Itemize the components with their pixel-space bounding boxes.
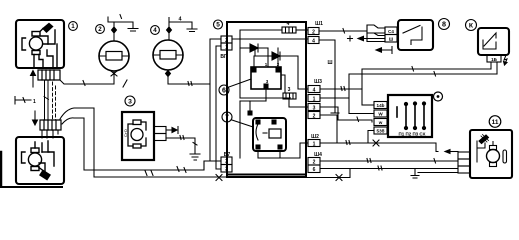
arrow stub left of motor 11: [450, 151, 458, 153]
wire Sh4-6 to wiper motor 11 with ground branch: [320, 168, 458, 170]
diode VD1: [240, 47, 268, 49]
connector X on bottom outer wire: [216, 175, 222, 181]
svg-text:Ш: Ш: [327, 60, 332, 66]
fuse F1 inside unit 5: [282, 27, 296, 33]
wire Sh2-1 to column switch 9 pin 4: [320, 131, 374, 144]
arrow up left of connector: [32, 74, 34, 87]
pump 2 top wire with ground: [113, 22, 115, 41]
svg-text:CтO: CтO: [123, 129, 128, 137]
svg-text:С4: С4: [388, 29, 394, 34]
svg-text:7: 7: [225, 114, 229, 121]
diode VD2: [255, 55, 298, 57]
connector (hatched) above washer pump 3: [40, 120, 61, 130]
node wire Sh3-1 to switch 10: [320, 88, 362, 90]
svg-text:3: 3: [313, 105, 316, 111]
connector wedges + terminals of switch 8: [367, 25, 385, 33]
circled label 11: [489, 116, 501, 128]
svg-text:w: w: [378, 120, 383, 125]
arrow stub right of unit 3: [167, 129, 172, 131]
svg-text:П1 П2 П3 СХ: П1 П2 П3 СХ: [398, 132, 425, 137]
terminal Sh2 (right of unit 5): [308, 140, 320, 147]
svg-text:4: 4: [312, 38, 315, 44]
unit 3 lower pin wire to ground: [166, 138, 195, 154]
wire curved to long bottom run (inner): [62, 118, 204, 170]
circled label 4: [151, 26, 160, 35]
svg-text:Ш4: Ш4: [314, 152, 322, 158]
svg-text:1: 1: [313, 141, 316, 147]
switch 8 contacts inside: [403, 26, 420, 34]
wire Sh3-4 long to wiper motor 11: [320, 115, 438, 152]
fuse F2 inside unit 5: [281, 75, 285, 93]
internal wiring unit 5 middle: [265, 89, 267, 101]
switch 10 contacts inside: [484, 33, 496, 46]
pins from connector 2 into lower unit: [42, 130, 58, 138]
wires from BP down left side: [210, 39, 221, 161]
circled label 8: [439, 19, 450, 30]
svg-text:2: 2: [313, 113, 316, 119]
wire Sh4-2 to wiper motor 11: [320, 160, 458, 162]
pump 4 top wire with ground: [168, 22, 170, 40]
wire curved to long bottom run (outer): [60, 108, 227, 177]
wire Sh1-2 to switch 8: [319, 30, 367, 32]
svg-text:1: 1: [313, 96, 316, 102]
circled label 9: [434, 92, 443, 101]
circled label 10: [466, 20, 477, 31]
node wire Sh3-2 to switch 10: [320, 97, 349, 99]
circled label 5: [214, 20, 223, 29]
column switch 9 terminals: [374, 102, 387, 109]
terminal block B7 (lower left of unit 5): [221, 157, 232, 165]
tick marks bottom-left wires: [145, 171, 153, 176]
svg-text:1: 1: [71, 23, 75, 30]
switch 10 wires down-left: [490, 62, 492, 69]
lightning arrow: [504, 55, 507, 65]
svg-text:В7: В7: [224, 152, 231, 158]
svg-text:4: 4: [313, 87, 316, 93]
edge smudges: [0, 152, 2, 188]
svg-text:5: 5: [216, 22, 220, 29]
stub with T-bar bottom-left: [15, 97, 31, 105]
svg-text:2: 2: [312, 29, 315, 35]
circled label 7 with pointer: [222, 112, 232, 122]
relay control unit 5 (main box): [227, 22, 306, 177]
svg-text:1Б: 1Б: [491, 57, 498, 62]
svg-text:2: 2: [98, 26, 102, 33]
dashed hose lines: [44, 97, 49, 100]
svg-text:2: 2: [313, 159, 316, 165]
svg-text:4: 4: [153, 27, 157, 34]
wiper switch 10 box: [478, 28, 509, 55]
svg-text:3: 3: [128, 98, 132, 105]
wire connector to washer pump 2 circle bottom: [60, 80, 113, 84]
motor symbol inside unit 3: [128, 120, 146, 148]
pump symbol inside unit 1: [22, 24, 57, 68]
pump symbol inside lower unit: [22, 141, 55, 180]
pump 4 bottom wire to relay unit: [168, 70, 210, 84]
wire Sh1-4 down: [319, 40, 335, 112]
svg-text:2: 2: [225, 167, 228, 173]
terminal block Sh4 (bottom right of unit 5): [308, 158, 320, 166]
svg-text:2: 2: [225, 38, 228, 44]
svg-text:Ш: Ш: [389, 37, 394, 42]
internal wiring unit 5 bottom: [258, 143, 308, 158]
wire Sh3-3 to column switch 9: [320, 107, 372, 122]
washer pump unit 1 box: [16, 20, 64, 68]
circled label 3: [125, 96, 135, 106]
switch bars inside 9: [406, 104, 424, 129]
terminal block Sh3 (right of unit 5): [308, 86, 320, 93]
circled label 1: [69, 22, 78, 31]
svg-text:6: 6: [313, 167, 316, 173]
svg-text:W: W: [378, 112, 383, 117]
relay K2 (7) pin and wire: [248, 111, 252, 115]
washer pump unit (lower) box: [16, 137, 64, 184]
terminal block Sh1 (top right of unit 5): [308, 28, 319, 35]
switch 10 terminal: [487, 55, 501, 62]
svg-text:14b: 14b: [377, 103, 385, 108]
svg-text:ВП: ВП: [220, 54, 228, 60]
tick on wire: [83, 81, 85, 86]
slash mark: [123, 80, 127, 87]
ignition switch 8 box: [398, 20, 433, 50]
arrow stub below switch 8: [381, 47, 392, 54]
svg-text:4: 4: [287, 21, 290, 27]
svg-text:3: 3: [288, 87, 291, 93]
wiper motor 11 box: [470, 130, 512, 178]
internal wiring unit 5 top: [296, 29, 308, 31]
connector (hatched) below unit 1: [38, 70, 60, 80]
svg-text:1: 1: [225, 45, 228, 51]
stub wire from unit 5 bottom with connector X: [305, 169, 350, 178]
pump 2 bottom wire with connector X: [113, 71, 115, 84]
svg-text:Ш2: Ш2: [311, 134, 319, 140]
plus feed arrow into switch 8: [363, 38, 385, 40]
terminal block BP (left of unit 5): [221, 36, 232, 43]
motor symbol inside 11: [487, 150, 500, 163]
arrow down left of connector 2: [34, 111, 36, 122]
svg-text:11: 11: [492, 119, 499, 126]
svg-text:Ш1: Ш1: [315, 21, 323, 27]
svg-text:3: 3: [225, 159, 228, 165]
circled label 2: [96, 25, 105, 34]
column switch 9 box: [388, 95, 432, 137]
svg-text:1: 1: [33, 99, 36, 105]
svg-text:8: 8: [442, 19, 446, 28]
svg-text:6: 6: [222, 87, 226, 94]
relay K1 (6) coil box: [251, 67, 281, 89]
washer fluid pump 2 (circle): [99, 41, 129, 71]
svg-text:Ш3: Ш3: [314, 79, 322, 85]
unit 3 connector pins: [154, 127, 166, 134]
relay K2 (7) box: [253, 118, 286, 151]
circled label 6 with pointer: [219, 85, 229, 95]
svg-text:53б: 53б: [377, 128, 385, 134]
washer fluid pump 4 (circle): [153, 40, 183, 70]
wiper motor 11 terminals: [458, 152, 470, 159]
windscreen wiper unit 3 box: [122, 112, 154, 160]
